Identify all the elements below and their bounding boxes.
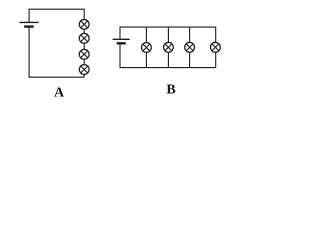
lamp L4 (circuit A, series)	[79, 65, 89, 75]
wire: circuit A right vertical through lamp chain	[83, 9, 85, 78]
battery cell circuit A: short negative plate	[24, 25, 34, 27]
label: circuit B caption	[166, 83, 175, 98]
label: circuit A caption	[54, 86, 65, 101]
wire: circuit A left vertical (battery bottom lead)	[28, 27, 30, 77]
lamp L8 (circuit B, parallel branch 4)	[211, 42, 221, 52]
wire: circuit B left vertical (battery top lead)	[119, 27, 121, 40]
svg-text:B: B	[166, 83, 175, 98]
wire: circuit B branch 1 vertical	[145, 27, 147, 68]
wire: circuit B branch 3 vertical	[189, 27, 191, 68]
wire: circuit B left vertical (battery bottom lead)	[119, 44, 121, 68]
lamp L3 (circuit A, series)	[79, 49, 89, 59]
battery cell circuit B: long positive plate	[113, 38, 130, 40]
svg-text:A: A	[54, 86, 65, 100]
battery cell circuit A: long positive plate	[19, 21, 38, 23]
lamp L1 (circuit A, series)	[79, 20, 89, 30]
wire: circuit B top rail	[120, 26, 216, 28]
wire: circuit A bottom rail	[29, 76, 85, 78]
wire: circuit B branch 2 vertical	[167, 27, 169, 68]
lamp L5 (circuit B, parallel branch 1)	[142, 43, 152, 53]
wire: circuit B bottom rail	[120, 67, 216, 69]
battery cell circuit B: short negative plate	[117, 42, 126, 44]
lamp L6 (circuit B, parallel branch 2)	[164, 42, 174, 52]
lamp L7 (circuit B, parallel branch 3)	[185, 42, 195, 52]
wire: circuit A top rail	[29, 8, 85, 10]
lamp L2 (circuit A, series)	[79, 33, 89, 43]
wire: circuit A left vertical (battery top lead)	[28, 9, 30, 23]
wire: circuit B branch 4 vertical (right edge)	[215, 27, 217, 69]
